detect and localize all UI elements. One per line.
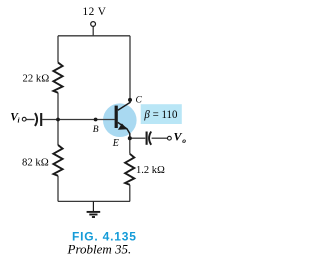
svg-text:E: E [112, 138, 119, 149]
svg-text:82 kΩ: 82 kΩ [22, 156, 49, 168]
svg-text:1.2 kΩ: 1.2 kΩ [136, 164, 165, 176]
svg-text:B: B [93, 125, 99, 135]
svg-text:12 V: 12 V [83, 6, 107, 18]
svg-text:o: o [182, 136, 186, 145]
svg-text:V: V [174, 130, 183, 144]
svg-text:Problem 35.: Problem 35. [67, 242, 132, 257]
svg-text:22 kΩ: 22 kΩ [23, 72, 50, 84]
svg-text:C: C [136, 95, 143, 105]
svg-text:β = 110: β = 110 [143, 107, 177, 121]
